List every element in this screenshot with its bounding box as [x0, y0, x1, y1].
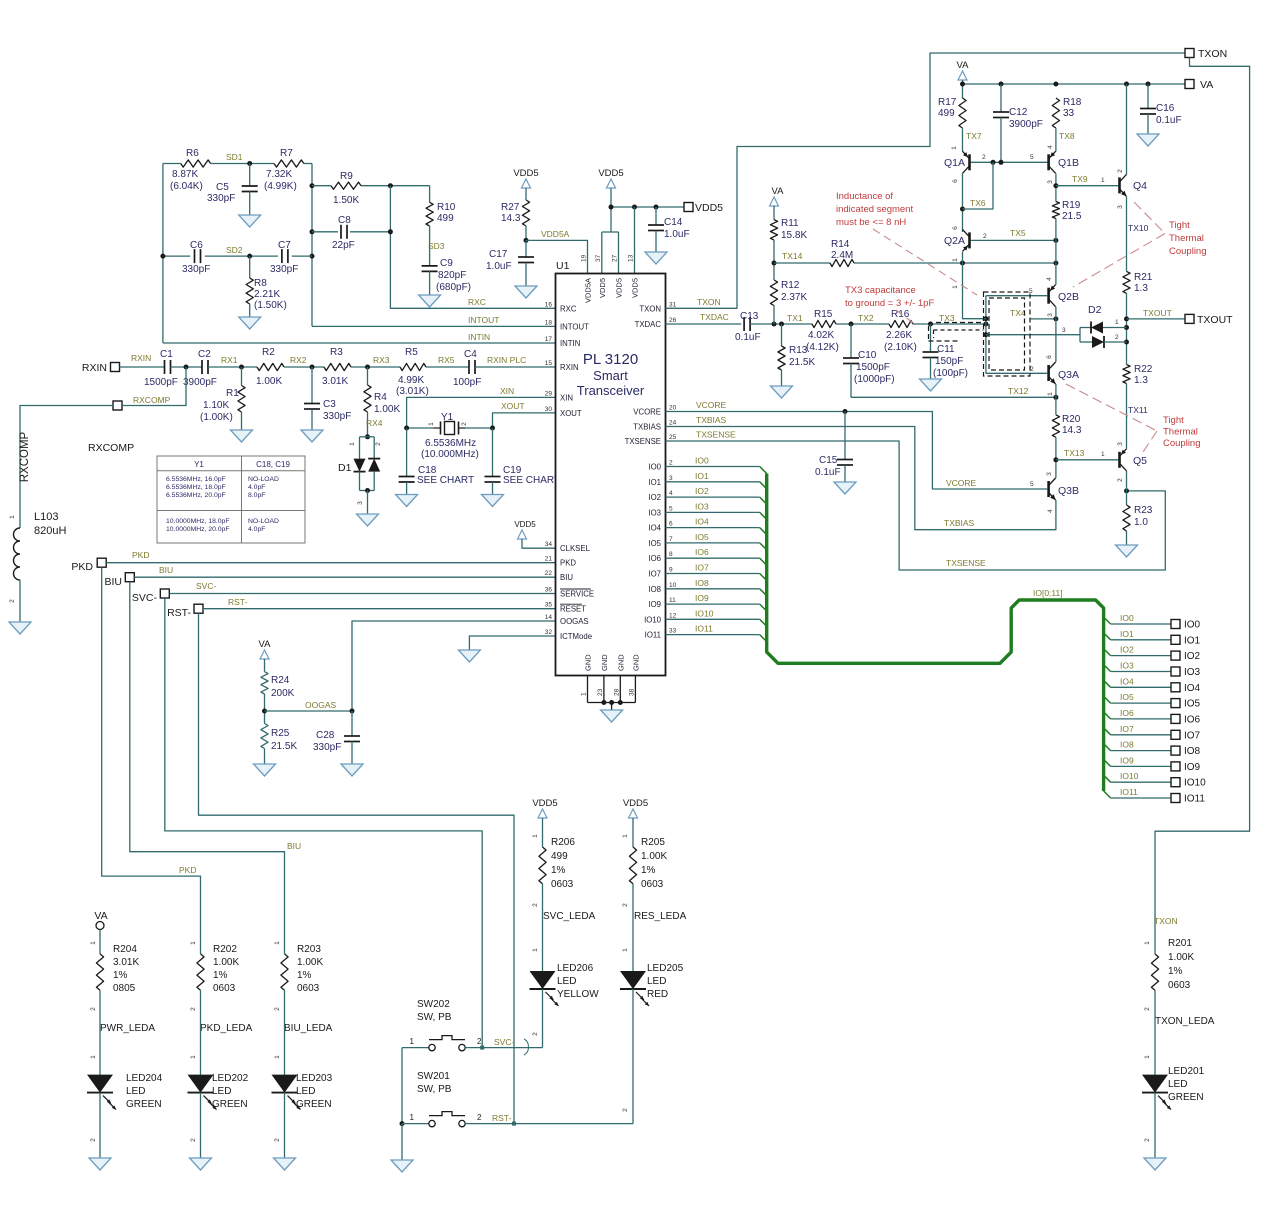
- resistor R24: [261, 672, 295, 699]
- capacitor C4: [453, 349, 481, 388]
- svg-text:11: 11: [669, 597, 676, 604]
- svg-text:VDD5: VDD5: [598, 278, 607, 298]
- svg-text:LED: LED: [647, 976, 666, 987]
- resistor R203: [281, 944, 324, 994]
- svg-text:CLKSEL: CLKSEL: [560, 544, 591, 553]
- svg-text:C18, C19: C18, C19: [256, 460, 290, 469]
- ground LED204: [89, 1158, 111, 1170]
- svg-text:1%: 1%: [1168, 966, 1183, 977]
- svg-text:NO-LOAD: NO-LOAD: [248, 518, 279, 525]
- svg-text:TXOUT: TXOUT: [1197, 314, 1233, 326]
- svg-text:TX3: TX3: [939, 313, 955, 323]
- svg-text:R4: R4: [374, 392, 387, 403]
- power VDD5 R205: [622, 798, 648, 847]
- svg-text:R6: R6: [186, 148, 199, 159]
- svg-text:Q2B: Q2B: [1058, 291, 1079, 303]
- svg-text:2: 2: [1144, 1007, 1151, 1011]
- svg-text:TXON: TXON: [1154, 916, 1178, 926]
- svg-text:35: 35: [545, 602, 553, 609]
- svg-text:IO7: IO7: [695, 563, 709, 573]
- svg-text:330pF: 330pF: [323, 411, 351, 422]
- svg-text:L103: L103: [34, 511, 58, 523]
- svg-text:1.3: 1.3: [1134, 375, 1148, 386]
- led LED202: [188, 1073, 249, 1110]
- svg-text:1%: 1%: [213, 970, 228, 981]
- resistor R13: [778, 324, 816, 386]
- svg-text:RX3: RX3: [373, 355, 390, 365]
- resistor R22: [1123, 364, 1153, 386]
- wire LED206 down: [532, 989, 543, 1048]
- svg-text:INTOUT: INTOUT: [468, 315, 499, 325]
- svg-text:IO7: IO7: [1120, 724, 1134, 734]
- wire TXOUT: [1127, 308, 1186, 319]
- label RXCOMP: [88, 442, 134, 454]
- svg-text:2: 2: [274, 1007, 281, 1011]
- resistor R202: [197, 944, 240, 994]
- svg-text:TX12: TX12: [1008, 386, 1029, 396]
- wire RX4: [366, 412, 383, 437]
- svg-text:VA: VA: [772, 186, 785, 197]
- svg-text:GND: GND: [631, 654, 640, 671]
- wire RX1: [208, 355, 257, 370]
- capacitor C12: [993, 84, 1043, 162]
- capacitor C2: [183, 349, 217, 388]
- svg-text:R9: R9: [340, 171, 353, 182]
- svg-text:LED: LED: [1168, 1079, 1187, 1090]
- svg-text:IO4: IO4: [695, 517, 709, 527]
- svg-text:1.00K: 1.00K: [256, 376, 282, 387]
- wire TXSENSE: [666, 430, 1166, 571]
- svg-text:TX2: TX2: [858, 313, 874, 323]
- wire TX7: [963, 128, 982, 152]
- svg-text:Inductance of: Inductance of: [836, 191, 893, 202]
- svg-text:VA: VA: [957, 60, 970, 71]
- resistor R2: [256, 347, 284, 387]
- wire RST drop: [199, 613, 515, 1123]
- svg-text:C4: C4: [464, 349, 477, 360]
- resistor R23: [1123, 505, 1153, 531]
- svg-text:3: 3: [1117, 442, 1124, 446]
- svg-text:4.0pF: 4.0pF: [248, 526, 265, 533]
- svg-text:330pF: 330pF: [182, 264, 210, 275]
- svg-text:TX10: TX10: [1128, 223, 1149, 233]
- svg-text:RX1: RX1: [221, 355, 238, 365]
- wire LED204 gnd: [90, 1093, 100, 1158]
- ground R25: [254, 764, 276, 776]
- resistor R17: [938, 97, 966, 128]
- ground R1: [231, 430, 253, 442]
- svg-text:5: 5: [669, 505, 673, 512]
- capacitor C17: [486, 240, 534, 286]
- svg-text:RST-: RST-: [167, 607, 191, 619]
- svg-text:1: 1: [1047, 392, 1054, 396]
- svg-text:(680pF): (680pF): [436, 282, 471, 293]
- svg-text:(2.10K): (2.10K): [884, 342, 917, 353]
- svg-text:LED205: LED205: [647, 963, 684, 974]
- svg-text:R12: R12: [781, 280, 800, 291]
- svg-text:IO6: IO6: [695, 547, 709, 557]
- wire BIU drop: [130, 582, 301, 954]
- svg-text:3900pF: 3900pF: [183, 377, 217, 388]
- wire TX3: [913, 313, 988, 327]
- svg-text:BIU: BIU: [104, 576, 122, 588]
- switch SW201: [429, 1112, 465, 1127]
- svg-text:RXCOMP: RXCOMP: [88, 442, 134, 454]
- note inductance: [836, 191, 913, 228]
- wire R206 LED206: [532, 884, 543, 971]
- svg-text:4.99K: 4.99K: [398, 375, 424, 386]
- resistor R9: [331, 171, 361, 206]
- svg-text:IO8: IO8: [648, 585, 661, 594]
- svg-text:6.5536MHz: 6.5536MHz: [425, 438, 476, 449]
- svg-text:LED203: LED203: [296, 1073, 333, 1084]
- svg-text:TX13: TX13: [1064, 448, 1085, 458]
- svg-text:LED: LED: [126, 1086, 145, 1097]
- label TXON net: [1144, 916, 1178, 945]
- svg-text:1.0uF: 1.0uF: [486, 261, 512, 272]
- capacitor C19: [485, 428, 561, 495]
- svg-text:0805: 0805: [113, 983, 136, 994]
- svg-text:(6.04K): (6.04K): [170, 181, 203, 192]
- power VA rail arrow: [957, 60, 970, 98]
- svg-text:330pF: 330pF: [207, 193, 235, 204]
- svg-text:TX7: TX7: [966, 131, 982, 141]
- svg-text:IO8: IO8: [1120, 740, 1134, 750]
- svg-text:1.00K: 1.00K: [374, 404, 400, 415]
- svg-text:RXIN: RXIN: [131, 353, 151, 363]
- svg-text:6.5536MHz, 18.0pF: 6.5536MHz, 18.0pF: [166, 484, 226, 491]
- svg-text:IO9: IO9: [648, 600, 661, 609]
- power VDD5 center: [598, 168, 623, 232]
- svg-text:IO0: IO0: [1184, 620, 1201, 631]
- svg-text:2: 2: [9, 599, 16, 603]
- svg-text:Q3A: Q3A: [1058, 369, 1079, 381]
- wire TX4 row: [1010, 308, 1058, 321]
- svg-text:TXON_LEDA: TXON_LEDA: [1155, 1016, 1215, 1027]
- wire VA to R204: [90, 930, 100, 954]
- svg-text:TXOUT: TXOUT: [1143, 308, 1172, 318]
- svg-text:INTIN: INTIN: [468, 332, 490, 342]
- svg-text:IO2: IO2: [1120, 645, 1134, 655]
- label SW202: [417, 999, 452, 1023]
- svg-text:GND: GND: [616, 654, 625, 671]
- resistor R7: [264, 148, 304, 192]
- svg-text:38: 38: [628, 688, 635, 696]
- svg-text:1.00K: 1.00K: [641, 851, 667, 862]
- svg-text:1500pF: 1500pF: [144, 377, 178, 388]
- wire R12 bottom: [773, 306, 775, 325]
- svg-text:IO6: IO6: [1184, 714, 1201, 725]
- svg-text:PKD: PKD: [132, 550, 149, 560]
- leader thermal 1a: [1134, 202, 1165, 234]
- svg-text:10.0000MHz, 20.0pF: 10.0000MHz, 20.0pF: [166, 526, 229, 533]
- svg-text:1: 1: [951, 146, 958, 150]
- svg-text:3.01K: 3.01K: [113, 957, 139, 968]
- wire LED203 gnd: [274, 1093, 285, 1158]
- svg-text:2: 2: [375, 442, 382, 446]
- svg-text:1.00K: 1.00K: [1168, 952, 1194, 963]
- svg-text:IO11: IO11: [645, 631, 661, 640]
- svg-text:IO11: IO11: [1120, 787, 1138, 797]
- svg-text:23: 23: [597, 688, 604, 696]
- ground C5: [239, 215, 261, 227]
- svg-text:Q1A: Q1A: [944, 157, 965, 169]
- resistor R4: [364, 367, 401, 415]
- svg-text:BIU: BIU: [560, 573, 573, 582]
- svg-text:R10: R10: [437, 202, 456, 213]
- wire TX5 row: [971, 228, 1059, 243]
- capacitor C8: [332, 215, 355, 251]
- svg-text:6.5536MHz, 20.0pF: 6.5536MHz, 20.0pF: [166, 492, 226, 499]
- transistor Q4: [1117, 169, 1147, 209]
- svg-text:IO11: IO11: [1184, 794, 1205, 805]
- svg-text:499: 499: [551, 851, 568, 862]
- svg-text:R5: R5: [405, 347, 418, 358]
- svg-text:R19: R19: [1062, 200, 1081, 211]
- svg-text:8: 8: [669, 551, 673, 558]
- svg-text:SVC-: SVC-: [132, 592, 158, 604]
- svg-text:C15: C15: [819, 455, 838, 466]
- svg-text:1: 1: [190, 941, 197, 945]
- svg-text:(1.50K): (1.50K): [254, 300, 287, 311]
- capacitor C1: [144, 349, 178, 388]
- transistor Q3B: [1046, 472, 1079, 513]
- svg-text:BIU: BIU: [159, 565, 173, 575]
- svg-text:2: 2: [90, 1007, 97, 1011]
- wire RX5: [426, 355, 469, 367]
- svg-text:1: 1: [410, 1113, 415, 1122]
- svg-text:VA: VA: [259, 639, 272, 650]
- svg-text:5: 5: [1030, 154, 1034, 161]
- resistor R205: [629, 837, 667, 890]
- wire GND pins: [588, 676, 636, 711]
- svg-text:LED: LED: [296, 1086, 315, 1097]
- ground C16: [1137, 134, 1159, 146]
- svg-text:R202: R202: [213, 944, 237, 955]
- wire LED202 gnd: [190, 1093, 201, 1158]
- svg-text:2: 2: [669, 460, 673, 467]
- svg-text:Y1: Y1: [194, 460, 204, 469]
- svg-text:5: 5: [1030, 481, 1034, 488]
- svg-text:1: 1: [1115, 319, 1119, 326]
- svg-text:6: 6: [669, 521, 673, 528]
- svg-text:6: 6: [952, 179, 959, 183]
- svg-text:VDD5: VDD5: [631, 278, 640, 298]
- wire R205 LED205: [622, 884, 633, 971]
- svg-text:2: 2: [1144, 1138, 1151, 1142]
- wire TX9 row: [1056, 174, 1118, 186]
- wire RX2: [284, 355, 324, 370]
- svg-text:R11: R11: [781, 218, 799, 229]
- svg-text:200K: 200K: [271, 688, 295, 699]
- svg-text:TXON: TXON: [1198, 48, 1227, 60]
- wire Q3A emitter: [1055, 384, 1057, 397]
- svg-text:2.4M: 2.4M: [831, 250, 853, 261]
- svg-text:1500pF: 1500pF: [856, 362, 890, 373]
- svg-text:TXSENSE: TXSENSE: [696, 430, 736, 440]
- svg-text:26: 26: [669, 317, 677, 324]
- svg-text:Thermal: Thermal: [1169, 233, 1204, 244]
- svg-text:TX14: TX14: [782, 251, 803, 261]
- svg-text:R23: R23: [1134, 505, 1153, 516]
- wire Q3A base: [986, 366, 1047, 373]
- wire TX11: [1127, 384, 1148, 449]
- wire SD2 row: [160, 254, 312, 259]
- label RXCOMP vertical: [19, 431, 31, 482]
- capacitor C10: [843, 324, 895, 397]
- svg-text:IO7: IO7: [1184, 730, 1201, 741]
- wire BIU: [134, 565, 555, 577]
- resistor R21: [1123, 271, 1153, 294]
- transistor Q2B: [1046, 277, 1079, 317]
- inductor L103: [9, 511, 66, 580]
- led LED203: [272, 1073, 333, 1110]
- svg-text:12: 12: [669, 612, 677, 619]
- svg-text:1.0: 1.0: [1134, 517, 1148, 528]
- wire left rail SD1/SD2/INTIN: [162, 164, 164, 344]
- ground C3: [301, 430, 323, 442]
- svg-text:2: 2: [532, 903, 539, 907]
- resistor R3: [322, 347, 351, 387]
- terminal TXON: [1185, 48, 1227, 60]
- chip U1 right pin labels: [625, 301, 677, 639]
- svg-text:IO3: IO3: [648, 508, 661, 517]
- svg-text:LED204: LED204: [126, 1073, 163, 1084]
- ground R13: [771, 386, 793, 398]
- svg-text:31: 31: [669, 301, 677, 308]
- svg-text:Coupling: Coupling: [1169, 246, 1207, 257]
- svg-text:XIN: XIN: [560, 393, 573, 402]
- transistor Q1A: [944, 146, 970, 183]
- svg-text:R17: R17: [938, 97, 957, 108]
- wire IO terminals: [1111, 613, 1171, 798]
- svg-text:100pF: 100pF: [453, 377, 481, 388]
- wire D1 bottom: [357, 472, 374, 514]
- svg-text:1: 1: [1144, 1055, 1151, 1059]
- svg-text:IO10: IO10: [644, 615, 662, 624]
- svg-text:2: 2: [477, 1113, 482, 1122]
- svg-text:2.26K: 2.26K: [886, 330, 912, 341]
- svg-text:VDD5: VDD5: [514, 520, 536, 529]
- wire RXIN-RXCOMP node: [171, 365, 203, 370]
- svg-text:1: 1: [1144, 941, 1151, 945]
- svg-text:RESET: RESET: [560, 605, 586, 614]
- wire OOGAS row: [262, 694, 355, 723]
- svg-text:820uH: 820uH: [34, 525, 66, 537]
- svg-text:21.5: 21.5: [1062, 211, 1082, 222]
- svg-text:RES_LEDA: RES_LEDA: [634, 911, 687, 922]
- svg-text:IO2: IO2: [695, 486, 709, 496]
- ground C17: [515, 286, 537, 298]
- svg-text:1: 1: [274, 1055, 281, 1059]
- svg-text:6: 6: [1046, 355, 1053, 359]
- svg-text:3: 3: [357, 501, 364, 505]
- svg-text:1: 1: [581, 692, 588, 696]
- svg-text:4: 4: [1046, 277, 1053, 281]
- svg-text:PKD: PKD: [560, 559, 576, 568]
- terminal SVC-: [132, 589, 169, 604]
- svg-text:TX1: TX1: [787, 313, 803, 323]
- svg-text:1.00K: 1.00K: [297, 957, 323, 968]
- svg-text:VCORE: VCORE: [696, 400, 727, 410]
- svg-text:17: 17: [545, 336, 553, 343]
- wire Q4 collector: [1126, 84, 1128, 174]
- wire TX14 to TX4: [952, 263, 986, 319]
- svg-text:IO4: IO4: [648, 524, 661, 533]
- svg-text:SD3: SD3: [428, 241, 445, 251]
- svg-text:GND: GND: [600, 654, 609, 671]
- svg-text:18: 18: [545, 319, 553, 326]
- switch SW202: [429, 1036, 465, 1051]
- svg-text:Q3B: Q3B: [1058, 485, 1079, 497]
- label PWR_LEDA: [90, 1007, 155, 1034]
- svg-text:Q2A: Q2A: [944, 235, 965, 247]
- resistor R11: [770, 218, 807, 241]
- svg-text:1: 1: [90, 941, 97, 945]
- svg-text:OOGAS: OOGAS: [305, 700, 337, 710]
- svg-text:SD1: SD1: [226, 152, 243, 162]
- svg-text:TXSENSE: TXSENSE: [625, 437, 661, 446]
- svg-text:R201: R201: [1168, 938, 1192, 949]
- svg-text:LED: LED: [212, 1086, 231, 1097]
- svg-text:SW, PB: SW, PB: [417, 1084, 452, 1095]
- terminal BIU: [104, 573, 134, 588]
- wire RXCOMP left: [20, 406, 113, 529]
- wire VCORE: [666, 400, 1048, 489]
- label D1: [338, 462, 352, 474]
- svg-text:16: 16: [545, 301, 553, 308]
- svg-text:2: 2: [190, 1007, 197, 1011]
- svg-text:(1000pF): (1000pF): [854, 374, 895, 385]
- svg-text:2.37K: 2.37K: [781, 292, 807, 303]
- svg-text:1: 1: [190, 1055, 197, 1059]
- ground LED203: [274, 1158, 296, 1170]
- note thermal coupling 2: [1163, 415, 1201, 449]
- svg-text:U1: U1: [556, 260, 570, 272]
- svg-text:330pF: 330pF: [270, 264, 298, 275]
- svg-text:VCORE: VCORE: [633, 408, 661, 417]
- wire TXDAC: [666, 312, 742, 324]
- svg-text:1: 1: [1101, 177, 1105, 184]
- svg-text:3: 3: [1062, 327, 1066, 334]
- svg-text:R204: R204: [113, 944, 137, 955]
- led LED204: [87, 1073, 163, 1110]
- svg-text:PL 3120: PL 3120: [583, 351, 638, 368]
- wire IO pins chip side: [666, 456, 760, 635]
- svg-text:3.01K: 3.01K: [322, 376, 348, 387]
- wire R23 gnd: [1126, 531, 1128, 545]
- resistor R206: [539, 837, 575, 890]
- svg-text:6: 6: [952, 226, 959, 230]
- svg-text:15.8K: 15.8K: [781, 230, 807, 241]
- svg-text:SVC_LEDA: SVC_LEDA: [543, 911, 596, 922]
- wire SW gnd: [401, 1124, 403, 1160]
- resistor R5: [396, 347, 429, 397]
- svg-text:IO10: IO10: [1184, 778, 1206, 789]
- svg-text:1: 1: [90, 1055, 97, 1059]
- svg-text:1: 1: [952, 285, 959, 289]
- svg-text:13: 13: [628, 254, 635, 262]
- wire SVC row: [465, 1037, 542, 1055]
- svg-text:IO3: IO3: [1120, 661, 1134, 671]
- wire SW201 left: [402, 1113, 429, 1124]
- wire OOGAS net: [352, 621, 556, 711]
- transistor Q1B: [1047, 145, 1079, 184]
- svg-text:1: 1: [622, 834, 629, 838]
- svg-text:10: 10: [669, 582, 677, 589]
- ground LED201: [1144, 1158, 1166, 1170]
- svg-text:IO0: IO0: [695, 456, 709, 466]
